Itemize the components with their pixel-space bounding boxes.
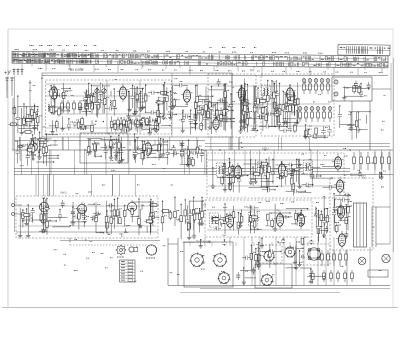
- speaker enclosure box: [303, 244, 330, 265]
- wire branch: [214, 104, 216, 125]
- wire branch: [315, 208, 317, 227]
- RF unit enclosure box: [42, 73, 232, 137]
- wire branch: [96, 88, 98, 116]
- wire branch: [187, 205, 189, 231]
- bus top of RF unit: [42, 75, 388, 77]
- resistor R23: [146, 117, 149, 127]
- capacitor C23: [131, 95, 135, 97]
- wire link: [105, 108, 116, 110]
- wire branch: [267, 214, 269, 226]
- resistor R19: [137, 121, 140, 127]
- wire branch: [85, 89, 87, 116]
- capacitor C97: [171, 151, 179, 155]
- wire branch: [230, 94, 232, 129]
- bus long y140: [14, 140, 205, 142]
- resistor R130: [211, 218, 221, 221]
- wire branch: [226, 94, 228, 123]
- wire branch: [84, 93, 86, 110]
- wire link: [107, 205, 114, 207]
- wire: [221, 224, 223, 227]
- wire link: [48, 217, 68, 219]
- wire link: [298, 191, 311, 193]
- wire branch: [246, 114, 248, 130]
- capacitor C107: [271, 171, 275, 173]
- tube V6: [29, 140, 38, 154]
- arrow line under audio: [60, 240, 160, 242]
- resistor R79: [224, 91, 227, 97]
- resistor R27: [155, 101, 165, 104]
- wire branch: [86, 91, 88, 115]
- wire branch: [311, 169, 313, 187]
- ground: [198, 221, 202, 226]
- wire branch: [224, 204, 226, 234]
- wire link: [291, 223, 305, 225]
- resistor R78: [194, 102, 197, 108]
- wire branch: [187, 146, 189, 164]
- capacitor C165: [281, 239, 285, 241]
- wire branch: [281, 162, 283, 187]
- wire branch: [193, 197, 195, 230]
- wire branch: [282, 239, 284, 244]
- wire link: [94, 155, 101, 157]
- wire branch: [299, 159, 301, 187]
- wire link: [337, 199, 350, 201]
- wire branch: [195, 105, 197, 123]
- wire branch: [278, 112, 280, 130]
- wire branch: [26, 209, 28, 224]
- ground: [228, 181, 232, 186]
- resistor R123: [253, 221, 256, 227]
- wire branch: [224, 164, 226, 190]
- bus audio bottom: [16, 231, 158, 233]
- wire branch: [32, 209, 34, 223]
- capacitor C50: [270, 95, 274, 97]
- wire branch: [181, 145, 183, 165]
- capacitor C139: [109, 204, 111, 208]
- wire branch: [136, 87, 138, 108]
- second IF dashed shield box: [205, 200, 312, 237]
- capacitor C131: [223, 221, 227, 223]
- wire antenna feed: [6, 91, 8, 98]
- capacitor C116: [267, 188, 269, 192]
- wire link: [323, 186, 339, 188]
- capacitor C55: [277, 122, 281, 124]
- wire branch: [295, 210, 297, 225]
- wire branch: [53, 90, 55, 112]
- capacitor C1: [101, 100, 105, 102]
- capacitor C167: [222, 241, 226, 243]
- wire branch: [194, 102, 196, 131]
- wire link: [211, 216, 229, 218]
- wire branch: [305, 128, 307, 140]
- capacitor C114: [231, 164, 235, 172]
- wire branch: [276, 108, 278, 127]
- wire link: [55, 110, 69, 112]
- resistor R25: [91, 125, 94, 131]
- wire branch: [83, 203, 85, 227]
- wire branch: [201, 150, 203, 162]
- resistor R95: [118, 142, 121, 148]
- wire branch: [253, 85, 255, 128]
- resistor R104: [188, 158, 191, 164]
- wire link: [132, 201, 154, 203]
- wire link: [161, 125, 170, 127]
- capacitor C134: [189, 212, 193, 214]
- converter unit dashed box A: [208, 74, 256, 137]
- wire branch: [310, 269, 312, 281]
- wire branch: [305, 125, 307, 137]
- wire branch: [254, 210, 256, 234]
- resistor R86: [355, 121, 358, 127]
- wire branch: [139, 209, 141, 226]
- resistor R150: [106, 222, 109, 228]
- capacitor C102: [308, 166, 310, 170]
- resistor R38: [216, 110, 219, 116]
- wire link: [122, 130, 130, 132]
- wire branch: [141, 141, 143, 165]
- resistor R39: [32, 111, 35, 121]
- resistor R30: [166, 95, 169, 101]
- wire branch: [269, 244, 271, 268]
- capacitor C41: [16, 117, 20, 119]
- wire branch: [240, 84, 242, 114]
- ground: [26, 233, 30, 238]
- tube V7: [142, 140, 154, 158]
- wire link: [49, 125, 57, 127]
- capacitor C5: [84, 100, 88, 102]
- wire branch: [285, 167, 287, 185]
- wire link: [135, 152, 156, 154]
- resistor R142: [161, 210, 171, 213]
- resistor R37: [201, 109, 204, 115]
- wire branch: [243, 91, 245, 120]
- wire branch: [258, 248, 260, 265]
- resistor R97: [93, 144, 96, 150]
- wire branch: [247, 109, 249, 126]
- capacitor C13: [149, 118, 151, 122]
- resistor R146: [149, 204, 159, 207]
- capacitor C117: [237, 178, 241, 180]
- wire branch: [380, 174, 382, 177]
- capacitor C128: [222, 218, 224, 222]
- resistor R93: [32, 146, 35, 152]
- capacitor C159: [323, 220, 327, 222]
- wire link: [113, 152, 119, 154]
- resistor R46: [31, 109, 34, 115]
- resistor R144: [22, 214, 32, 217]
- wire branch: [252, 167, 254, 186]
- wire link: [130, 87, 143, 89]
- wire branch: [163, 85, 165, 117]
- capacitor C145: [44, 211, 48, 213]
- wire branch: [124, 206, 126, 226]
- capacitor C22: [156, 97, 160, 105]
- resistor R133: [184, 210, 187, 216]
- wire link: [259, 126, 275, 128]
- wire branch: [162, 201, 164, 231]
- resistor R148: [46, 221, 49, 227]
- fuse box: [368, 270, 388, 277]
- ground: [170, 105, 174, 110]
- wire branch: [149, 117, 151, 133]
- resistor R49: [262, 108, 265, 114]
- capacitor C103: [288, 163, 290, 167]
- wire branch: [340, 200, 342, 221]
- capacitor C12: [123, 129, 125, 133]
- resistor R103: [181, 150, 184, 156]
- wire branch: [104, 87, 106, 114]
- capacitor C31: [222, 112, 226, 114]
- wire link: [50, 144, 58, 146]
- resistor R151: [95, 216, 98, 222]
- wire branch: [120, 144, 122, 160]
- capacitor C154: [341, 198, 343, 202]
- wire link: [210, 102, 228, 104]
- capacitor C127: [283, 215, 285, 219]
- wire: [44, 213, 46, 216]
- ground: [208, 125, 212, 130]
- wire branch: [72, 207, 74, 223]
- ground: [273, 227, 277, 232]
- wire branch: [17, 141, 19, 164]
- capacitor C106: [296, 167, 300, 169]
- capacitor C160: [317, 226, 321, 228]
- wire branch: [56, 120, 58, 132]
- resistor R91: [25, 148, 35, 151]
- tube socket X3: [217, 271, 230, 284]
- resistor R128: [232, 212, 235, 218]
- resistor R102: [141, 153, 144, 159]
- ground: [193, 121, 197, 126]
- ground: [52, 109, 56, 114]
- resistor R147: [152, 213, 155, 219]
- wire branch: [381, 174, 383, 177]
- wire link: [280, 164, 300, 166]
- wire branch: [292, 170, 294, 196]
- resistor R174: [326, 216, 329, 222]
- bus B+ line: [14, 171, 350, 173]
- wire branch: [68, 119, 70, 131]
- ground: [139, 107, 143, 112]
- wire link: [79, 126, 87, 128]
- wire link: [73, 216, 80, 218]
- ground: [24, 118, 28, 123]
- capacitor C69: [202, 100, 204, 104]
- capacitor C93: [158, 143, 160, 147]
- resistor R77: [205, 105, 208, 111]
- capacitor C70: [217, 98, 225, 102]
- oscillator shield box: [80, 133, 128, 163]
- wire branch: [226, 214, 228, 223]
- capacitor C49: [241, 98, 249, 102]
- capacitor C68: [229, 104, 233, 106]
- ground: [239, 119, 243, 124]
- wire branch: [188, 140, 190, 165]
- wire branch: [220, 107, 222, 127]
- wire branch: [243, 93, 245, 130]
- power unit box: [184, 242, 233, 287]
- wire link: [152, 144, 168, 146]
- wire link: [226, 175, 247, 177]
- resistor R61: [285, 101, 295, 104]
- ground: [114, 156, 118, 161]
- wire branch: [274, 83, 276, 125]
- wire link: [44, 134, 58, 136]
- wire IF lower to bottom: [204, 237, 206, 246]
- wire link: [220, 118, 234, 120]
- tube V8: [232, 163, 244, 181]
- wire branch: [272, 160, 274, 184]
- wire branch: [97, 87, 99, 118]
- wire branch: [32, 135, 34, 160]
- wire branch: [19, 137, 21, 161]
- wire link: [260, 186, 277, 188]
- capacitor C24: [170, 112, 172, 116]
- wire branch: [289, 85, 291, 129]
- ground: [303, 134, 307, 139]
- capacitor C65: [222, 109, 224, 113]
- wire branch: [324, 209, 326, 226]
- wire branch: [137, 118, 139, 133]
- power sub-box 2: [255, 264, 292, 288]
- tube socket X5: [263, 250, 275, 262]
- capacitor C18: [67, 124, 71, 126]
- wire branch: [228, 159, 230, 191]
- capacitor C135: [31, 210, 35, 212]
- resistor R158: [110, 217, 113, 223]
- wire link: [262, 189, 275, 191]
- wire branch: [274, 204, 276, 229]
- resistor R6: [87, 95, 90, 101]
- wire branch: [301, 239, 303, 245]
- IF amplifier dashed shield box: [207, 153, 344, 198]
- wire link: [138, 107, 146, 109]
- wire branch: [257, 88, 259, 114]
- wire branch: [91, 86, 93, 107]
- wire link: [310, 177, 332, 179]
- capacitor C149: [255, 259, 259, 267]
- wire branch: [254, 86, 256, 124]
- wire right edge vertical: [389, 150, 391, 244]
- capacitor C143: [58, 214, 62, 216]
- resistor R101: [158, 145, 161, 151]
- resistor ladder row 2 in RF unit: [117, 117, 144, 131]
- resistor R67: [267, 95, 270, 101]
- wire link: [148, 92, 158, 94]
- wire branch: [200, 240, 202, 246]
- capacitor C19: [81, 125, 83, 129]
- FM input unit box: [332, 77, 372, 101]
- wire branch: [320, 211, 322, 234]
- inductor L2: [110, 100, 111, 107]
- wire branch: [119, 211, 121, 223]
- ground: [322, 233, 326, 238]
- tube V4b: [210, 116, 221, 133]
- resistor R100: [143, 144, 146, 150]
- wire branch: [45, 199, 47, 231]
- ground: [252, 126, 256, 131]
- wire: [324, 135, 326, 138]
- wire branch: [199, 211, 201, 223]
- input jack J2: [12, 213, 15, 216]
- wire link: [48, 157, 58, 159]
- resistor R117: [228, 167, 231, 173]
- capacitor C121: [358, 172, 362, 174]
- ground: [297, 262, 301, 267]
- resistor R154: [138, 218, 141, 224]
- capacitor C118: [295, 168, 299, 170]
- resistor R139: [201, 212, 204, 218]
- capacitor C90: [144, 151, 146, 155]
- wire branch: [45, 134, 47, 166]
- wire link: [70, 221, 85, 223]
- wire branch: [241, 209, 243, 224]
- variable capacitor C2 tuning gang: [102, 89, 106, 93]
- wire branch: [134, 142, 136, 161]
- resistor R87: [45, 147, 48, 153]
- auxiliary strip segment top right: [338, 44, 391, 55]
- wire branch: [105, 144, 107, 160]
- wire branch: [106, 211, 108, 231]
- resistor R4: [50, 90, 53, 96]
- capacitor C89: [133, 149, 137, 151]
- resistor R156: [150, 213, 153, 219]
- resistor R159: [149, 217, 152, 223]
- capacitor C16: [78, 126, 86, 130]
- wire branch: [267, 81, 269, 124]
- resistor R113: [291, 178, 294, 184]
- ground: [356, 127, 360, 132]
- capacitor C39: [26, 123, 28, 127]
- capacitor C156: [332, 212, 336, 214]
- wire branch: [50, 86, 52, 105]
- resistor R75: [305, 131, 308, 137]
- resistor R32: [220, 115, 223, 121]
- resistor R98: [87, 147, 90, 153]
- wire branch: [333, 194, 335, 231]
- capacitor C152: [270, 249, 272, 253]
- wire link: [43, 155, 58, 157]
- ground: [181, 128, 185, 133]
- wire branch: [223, 103, 225, 131]
- capacitor C100: [310, 174, 314, 176]
- capacitor C96: [200, 152, 204, 154]
- resistor R105: [196, 147, 199, 153]
- title specks top left: [29, 46, 256, 48]
- IF transformer T4: [304, 160, 313, 174]
- resistor R110: [229, 181, 232, 191]
- capacitor C62: [224, 108, 228, 110]
- svg-text:ПЧ: ПЧ: [250, 69, 254, 73]
- resistor R131: [271, 218, 274, 228]
- resistor R3: [113, 100, 116, 106]
- wire branch: [94, 140, 96, 156]
- resistor ladder bottom right: [321, 250, 348, 266]
- wire link: [208, 89, 225, 91]
- ground: [294, 265, 298, 270]
- wire branch: [188, 149, 190, 168]
- wire branch: [59, 209, 61, 221]
- ground: [161, 115, 165, 120]
- wire link: [286, 247, 303, 249]
- ground: [117, 159, 121, 164]
- wire link: [52, 226, 70, 228]
- wire link: [92, 85, 110, 87]
- capacitor C17: [81, 126, 89, 130]
- wire branch: [111, 141, 113, 157]
- wire link: [143, 129, 158, 131]
- resistor R68: [244, 106, 247, 112]
